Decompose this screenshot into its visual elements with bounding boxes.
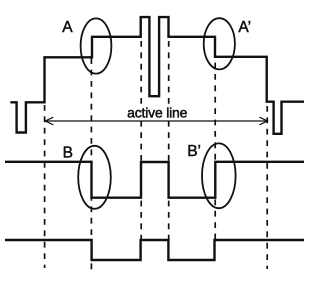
svg-text:B’: B’: [187, 143, 201, 160]
svg-text:active line: active line: [127, 104, 187, 120]
svg-text:A’: A’: [238, 19, 251, 36]
svg-text:A: A: [62, 19, 73, 36]
svg-text:B: B: [63, 144, 73, 161]
